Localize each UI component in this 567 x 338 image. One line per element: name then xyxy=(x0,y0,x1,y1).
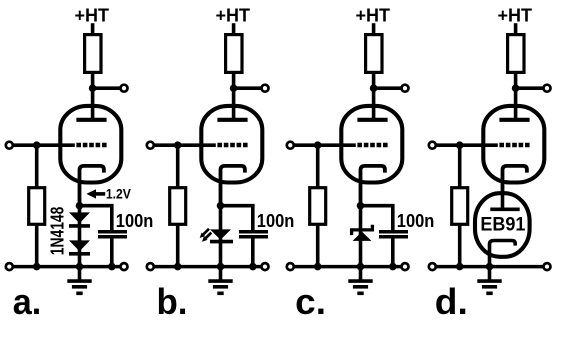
bottom-right terminal (circuit a) xyxy=(121,263,128,270)
diode tube V2 cathode xyxy=(490,241,516,267)
triode Va1 cathode xyxy=(80,166,104,206)
wire: anode node to output terminal (circuit d) xyxy=(516,86,544,90)
value label EB91 xyxy=(480,214,526,232)
resistor Rb2 grid leak xyxy=(170,188,186,225)
node bias-element/rail junction (circuit b) xyxy=(217,263,225,271)
diode D2 1N4148 xyxy=(69,240,90,251)
wire: anode resistor to triode anode (circuit d) xyxy=(514,72,518,120)
bottom-left terminal (circuit a) xyxy=(6,263,13,270)
triode Vd1 anode plate xyxy=(499,118,529,122)
LED D1 light arrows (circuit b) xyxy=(200,229,212,242)
wire: +HT to anode resistor (circuit d) xyxy=(514,23,518,36)
wire: ground rail (circuit d) xyxy=(436,265,544,269)
wire: grid resistor to ground rail (circuit a) xyxy=(35,224,39,267)
svg-text:1N4148: 1N4148 xyxy=(47,207,68,256)
bottom-left terminal (circuit d) xyxy=(429,263,436,270)
node grid-resistor/rail junction (circuit b) xyxy=(174,263,182,271)
triode Va1 anode plate xyxy=(76,118,106,122)
diode tube V2 anode plate xyxy=(490,207,519,211)
triode Vd1 envelope xyxy=(483,106,544,183)
node cathode junction (circuit b) xyxy=(217,202,225,210)
node bias-element/rail junction (circuit d) xyxy=(486,263,494,271)
node anode/output junction (circuit a) xyxy=(89,84,97,92)
capacitor Cb1 plate 2 xyxy=(239,235,268,239)
wire: grid node to grid resistor (circuit a) xyxy=(35,145,39,189)
resistor Rd1 anode load xyxy=(508,35,524,73)
output terminal (circuit b) xyxy=(262,85,269,92)
wire: anode node to output terminal (circuit a) xyxy=(93,86,121,90)
node anode/output junction (circuit b) xyxy=(230,84,238,92)
node bias-element/rail junction (circuit a) xyxy=(76,263,84,271)
wire: cathode node to capacitor Cc1 xyxy=(361,206,393,231)
svg-text:100n: 100n xyxy=(397,211,435,231)
wire: cathode node to capacitor Cb1 xyxy=(221,206,253,231)
wire: grid node to grid resistor (circuit b) xyxy=(176,145,180,189)
wire: rail to ground symbol (circuit b) xyxy=(219,267,223,281)
triode Vd1 cathode xyxy=(503,166,527,209)
wire: cathode node to capacitor Ca1 xyxy=(80,206,112,231)
input terminal (circuit a) xyxy=(6,142,13,149)
svg-text:a.: a. xyxy=(13,281,42,322)
node grid-resistor/rail junction (circuit c) xyxy=(314,263,322,271)
triode Vb1 anode plate xyxy=(217,118,247,122)
bottom-right terminal (circuit c) xyxy=(402,263,409,270)
wire: +HT to anode resistor (circuit b) xyxy=(232,23,236,36)
wire: cathode node through bias element to rail (circuit a) xyxy=(78,206,82,267)
wire: input terminal to grid (circuit b) xyxy=(154,143,216,147)
node anode/output junction (circuit c) xyxy=(370,84,378,92)
triode Vc1 envelope xyxy=(341,106,402,183)
svg-text:1.2V: 1.2V xyxy=(106,185,132,201)
wire: +HT to anode resistor (circuit a) xyxy=(91,23,95,36)
wire: ground rail (circuit a) xyxy=(13,265,121,269)
zener diode D1 cathode bar (circuit c) xyxy=(352,225,373,235)
resistor Rc2 grid leak xyxy=(310,188,326,225)
svg-text:EB91: EB91 xyxy=(480,213,525,235)
wire: main cathode to EB91 anode xyxy=(501,191,505,209)
ground symbol (circuit b) xyxy=(208,281,232,293)
svg-text:c.: c. xyxy=(295,281,326,322)
zener diode D1 triangle (circuit c) xyxy=(353,232,372,241)
wire: grid resistor to ground rail (circuit b) xyxy=(176,224,180,267)
wire: rail to ground symbol (circuit a) xyxy=(78,267,82,281)
wire: capacitor Cb1 to rail xyxy=(251,238,255,266)
wire: grid resistor to ground rail (circuit d) xyxy=(458,224,462,267)
wire: grid node to grid resistor (circuit d) xyxy=(458,145,462,189)
resistor Rd2 grid leak xyxy=(452,188,468,225)
resistor Ra1 anode load xyxy=(85,35,101,73)
wire: ground rail (circuit b) xyxy=(154,265,262,269)
node grid junction (circuit c) xyxy=(314,141,322,149)
diode D1 1N4148 xyxy=(69,212,90,223)
bottom-right terminal (circuit b) xyxy=(262,263,269,270)
node grid junction (circuit d) xyxy=(456,141,464,149)
wire: cathode node through bias element to rail (circuit c) xyxy=(359,206,363,267)
bottom-left terminal (circuit b) xyxy=(147,263,154,270)
wire: ground rail (circuit c) xyxy=(294,265,402,269)
capacitor Cc1 plate 1 xyxy=(379,230,408,234)
svg-text:+HT: +HT xyxy=(215,6,250,26)
triode Vb1 grid (dashed) xyxy=(217,143,247,147)
output terminal (circuit a) xyxy=(121,85,128,92)
ground symbol (circuit d) xyxy=(477,281,501,293)
node grid-resistor/rail junction (circuit a) xyxy=(33,263,41,271)
output terminal (circuit d) xyxy=(544,85,551,92)
node bias-element/rail junction (circuit c) xyxy=(357,263,365,271)
wire: input terminal to grid (circuit c) xyxy=(294,143,356,147)
input terminal (circuit b) xyxy=(147,142,154,149)
triode Va1 grid (dashed) xyxy=(76,143,106,147)
triode Vb1 cathode xyxy=(221,166,245,206)
triode Vd1 grid (dashed) xyxy=(499,143,529,147)
svg-text:+HT: +HT xyxy=(74,6,109,26)
input terminal (circuit d) xyxy=(429,142,436,149)
wire: +HT to anode resistor (circuit c) xyxy=(372,23,376,36)
ground symbol (circuit a) xyxy=(67,281,91,293)
triode Vc1 anode plate xyxy=(357,118,387,122)
bottom-right terminal (circuit d) xyxy=(544,263,551,270)
capacitor Ca1 plate 1 xyxy=(98,230,127,234)
annotation arrow 1.2V xyxy=(86,189,96,198)
resistor Ra2 grid leak xyxy=(29,188,45,225)
bottom-left terminal (circuit c) xyxy=(287,263,294,270)
ground symbol (circuit c) xyxy=(348,281,372,293)
wire: cathode node through bias element to rail (circuit b) xyxy=(219,206,223,267)
LED D1 triangle (circuit b) xyxy=(210,229,231,239)
node grid junction (circuit a) xyxy=(33,141,41,149)
triode Vb1 envelope xyxy=(201,106,262,183)
resistor Rc1 anode load xyxy=(366,35,382,73)
node cathode junction (circuit c) xyxy=(357,202,365,210)
wire: input terminal to grid (circuit d) xyxy=(436,143,498,147)
wire: anode resistor to triode anode (circuit a) xyxy=(91,72,95,120)
wire: input terminal to grid (circuit a) xyxy=(13,143,75,147)
wire: rail to ground symbol (circuit d) xyxy=(488,267,492,281)
node capacitor/rail junction (circuit a) xyxy=(108,263,116,271)
wire: rail to ground symbol (circuit c) xyxy=(359,267,363,281)
node capacitor/rail junction (circuit c) xyxy=(389,263,397,271)
triode Va1 envelope xyxy=(60,106,121,183)
node grid junction (circuit b) xyxy=(174,141,182,149)
wire: grid node to grid resistor (circuit c) xyxy=(316,145,320,189)
resistor Rb1 anode load xyxy=(226,35,242,73)
output terminal (circuit c) xyxy=(402,85,409,92)
capacitor Ca1 plate 2 xyxy=(98,235,127,239)
diode tube V2 EB91 envelope xyxy=(475,193,530,257)
LED D1 cathode bar (circuit b) xyxy=(210,240,233,244)
svg-text:b.: b. xyxy=(157,281,188,322)
wire: anode resistor to triode anode (circuit c) xyxy=(372,72,376,120)
svg-text:+HT: +HT xyxy=(355,6,390,26)
wire: grid resistor to ground rail (circuit c) xyxy=(316,224,320,267)
svg-text:100n: 100n xyxy=(116,211,154,231)
svg-text:100n: 100n xyxy=(257,211,295,231)
node anode/output junction (circuit d) xyxy=(512,84,520,92)
svg-text:d.: d. xyxy=(435,281,468,322)
wire: anode node to output terminal (circuit b) xyxy=(234,86,262,90)
input terminal (circuit c) xyxy=(287,142,294,149)
node cathode junction (circuit a) xyxy=(76,202,84,210)
node capacitor/rail junction (circuit b) xyxy=(249,263,257,271)
svg-text:+HT: +HT xyxy=(497,6,532,26)
capacitor Cc1 plate 2 xyxy=(379,235,408,239)
capacitor Cb1 plate 1 xyxy=(239,230,268,234)
wire: capacitor Cc1 to rail xyxy=(391,238,395,266)
triode Vc1 cathode xyxy=(361,166,385,206)
wire: capacitor Ca1 to rail xyxy=(110,238,114,266)
wire: anode resistor to triode anode (circuit b) xyxy=(232,72,236,120)
node grid-resistor/rail junction (circuit d) xyxy=(456,263,464,271)
wire: anode node to output terminal (circuit c) xyxy=(374,86,402,90)
triode Vc1 grid (dashed) xyxy=(357,143,387,147)
